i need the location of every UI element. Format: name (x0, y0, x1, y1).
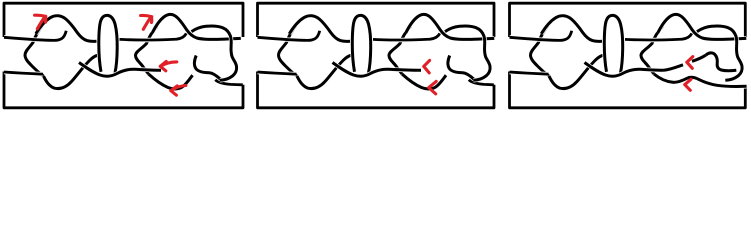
cord: left U-turn arc of tangle 1 (531, 26, 550, 77)
bottom bar top edge, left segment (4, 72, 43, 74)
cord: axis continuation left piece (664, 65, 684, 71)
bottom bar top edge, right segment (215, 80, 243, 85)
bottom bar top edge, left segment (510, 72, 549, 74)
top bar bottom edge, left segment with curl (510, 31, 572, 41)
cord: hook strand of tangle 2 (706, 53, 737, 71)
top bar bottom edge, left segment with curl (258, 31, 320, 41)
cord: bottom dip of tangle 1 (44, 55, 99, 89)
top bar (510, 3, 746, 37)
cord: big hump of tangle 2 merging to bar edge (406, 14, 495, 39)
top bar (258, 3, 495, 37)
bottom bar (510, 72, 746, 108)
cord: vertical eyelet loop of tangle 1 (352, 15, 370, 72)
red chevron at axis crossing (424, 60, 430, 73)
bottom bar (4, 72, 243, 108)
red chevron on lower strand (685, 79, 691, 90)
cord: left U-turn arc of tangle 1 (25, 26, 44, 77)
cord: big hump of tangle 1 (289, 16, 350, 42)
cord: flat hump, stub and right closure of tangle 2 (192, 26, 237, 80)
cord: left U-turn arc of tangle 2 (136, 27, 158, 75)
red chevron on upper strand (687, 57, 693, 69)
red chevron at sweep bottom (429, 81, 437, 94)
cord: big hump of tangle 2 merging to bar edge (152, 14, 241, 39)
cord: out-strand of tangle 2 (194, 56, 220, 80)
cord: shallow sweep of tangle 2 (resolved crossing) (654, 74, 746, 87)
cord: deep sweep of tangle 2 (402, 74, 446, 89)
cord: big hump of tangle 1 (36, 16, 97, 42)
top bar bottom edge, left segment with curl (4, 31, 66, 41)
cord: left U-turn arc of tangle 2 (641, 27, 663, 75)
top bar (4, 3, 243, 37)
top bar bottom edge, middle segment with curl (373, 33, 440, 40)
top bar bottom edge, middle segment with curl (625, 33, 692, 40)
red curved arrow at axis crossing (160, 61, 166, 70)
cord: axis continuation right piece (692, 55, 706, 61)
bottom bar top edge, left segment (258, 72, 297, 74)
cord: left U-turn arc of tangle 1 (279, 26, 298, 77)
cord: bottom dip of tangle 1 (549, 55, 604, 89)
red arrow over tangle 1 big hump (37, 18, 44, 29)
cord: big hump of tangle 1 (541, 16, 602, 42)
cord: big hump of tangle 2 merging to bar edge (658, 14, 747, 39)
red curved arrow at sweep bottom (171, 86, 177, 95)
bottom bar top edge, right segment (469, 80, 494, 85)
cord: vertical eyelet loop of tangle 1 (604, 15, 622, 72)
cord: axis strand between tangles (585, 63, 664, 77)
red arrow over tangle 2 big hump (143, 18, 150, 29)
bottom bar (258, 72, 495, 108)
cord: axis strand between tangles (79, 63, 161, 77)
cord: vertical eyelet loop of tangle 1 (99, 15, 117, 72)
cord: axis strand between tangles (333, 63, 422, 77)
cord: out-strand of tangle 2 (448, 56, 474, 80)
cord: left U-turn arc of tangle 2 (389, 27, 411, 75)
top bar bottom edge, middle segment with curl (120, 33, 187, 40)
cord: bottom dip of tangle 1 (297, 55, 352, 89)
cord: flat hump, stub and right closure of tangle 2 (697, 26, 742, 80)
cord: flat hump, stub and right closure of tangle 2 (445, 26, 490, 80)
cord: deep sweep of tangle 2 (149, 74, 193, 89)
